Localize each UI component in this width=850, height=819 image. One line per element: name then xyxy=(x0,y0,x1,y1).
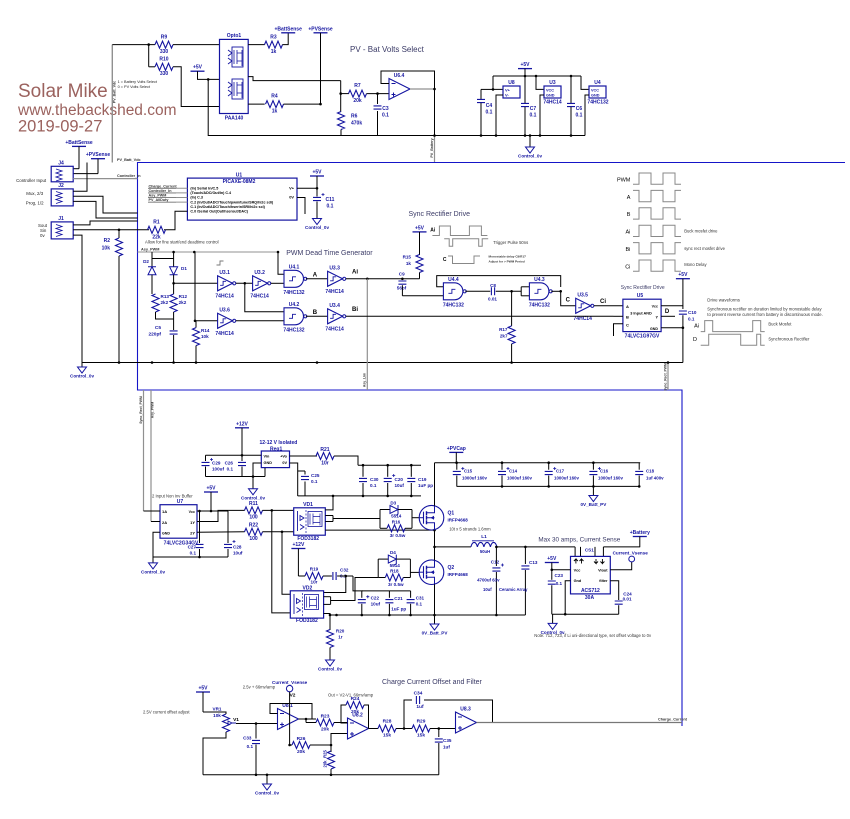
ic U1 PICAXE-08M2 box xyxy=(187,178,297,220)
capacitor C23 xyxy=(551,570,553,580)
svg-text:U8: U8 xyxy=(508,80,515,86)
capacitor C14 xyxy=(501,463,503,470)
op-amp U8.1 xyxy=(278,709,299,730)
transistor Q2 IRFP4668 xyxy=(419,560,444,585)
wire supply bottom rail xyxy=(470,135,585,137)
svg-text:Synchronous rectifier on durat: Synchronous rectifier on duration limite… xyxy=(707,307,822,312)
svg-text:+PVCap: +PVCap xyxy=(447,446,466,452)
svg-text:R12: R12 xyxy=(179,294,188,299)
connector J1 xyxy=(51,222,73,239)
wire R3 to +BattSense xyxy=(282,33,288,45)
resistor R7 xyxy=(349,90,367,97)
svg-text:20k: 20k xyxy=(323,760,328,768)
svg-text:B: B xyxy=(627,212,631,218)
wire U4.1 top input xyxy=(278,252,284,274)
svg-text:+5V: +5V xyxy=(198,686,208,692)
wire U8.1 out to R23 xyxy=(299,718,317,720)
wire U4.3 input tie xyxy=(520,287,522,296)
ic VD1 FOD3182 xyxy=(294,508,326,535)
wire node to R7 xyxy=(341,93,349,95)
wire U5 GND xyxy=(661,327,683,329)
svg-text:10r: 10r xyxy=(321,461,329,467)
resistor R20 xyxy=(329,615,331,630)
svg-text:Sync_Rect_PWM: Sync_Rect_PWM xyxy=(664,363,668,391)
svg-text:Control_0v: Control_0v xyxy=(70,374,94,379)
nand U4.3 xyxy=(529,283,549,300)
wire J1 pin3 Sout xyxy=(73,221,137,225)
wire VD1 pin8 riser xyxy=(325,496,333,510)
diode D3 zener xyxy=(380,509,390,511)
wire R13 R12 join xyxy=(156,312,174,319)
ic U7 box xyxy=(160,505,197,539)
svg-text:Controller_In: Controller_In xyxy=(149,189,173,193)
svg-text:VD1: VD1 xyxy=(303,502,313,508)
svg-text:Sync Rectifier Drive: Sync Rectifier Drive xyxy=(409,211,471,218)
svg-text:+5V: +5V xyxy=(193,65,203,71)
wire U8.1 feedback xyxy=(270,704,312,720)
svg-text:R24: R24 xyxy=(351,696,360,702)
svg-text:C32: C32 xyxy=(340,568,349,573)
wire U8.3 out gray Charge_Current xyxy=(477,722,683,724)
wire U8.2 out xyxy=(369,728,379,730)
wire opto out2 to comparator node xyxy=(248,77,341,81)
wire analog ground rail xyxy=(341,135,583,137)
wire U4.4 out xyxy=(465,290,490,292)
svg-text:Viout: Viout xyxy=(598,568,608,572)
svg-text:C17: C17 xyxy=(556,469,565,474)
wire U4.3 out node xyxy=(551,290,560,292)
svg-text:to prevent reverse current fro: to prevent reverse current from battery … xyxy=(707,312,822,317)
wire V2 riser xyxy=(289,692,291,745)
svg-text:Prog, 1/2: Prog, 1/2 xyxy=(26,201,44,206)
svg-text:PV_Battery: PV_Battery xyxy=(430,138,434,157)
svg-text:IRFP4668: IRFP4668 xyxy=(448,572,469,577)
wire Asy_PWM to U3.6 xyxy=(194,252,196,321)
wire comparator node vertical xyxy=(340,81,342,112)
wire +12V down to R19 rail xyxy=(297,549,299,577)
svg-text:10uf: 10uf xyxy=(483,587,492,592)
wire sense gnd rail xyxy=(552,613,619,615)
wire cross to VD2 pin2 xyxy=(282,532,290,594)
svg-text:Controller_In: Controller_In xyxy=(117,174,141,178)
svg-text:Control_0v: Control_0v xyxy=(255,791,279,796)
svg-text:D4: D4 xyxy=(390,550,396,555)
svg-text:30A: 30A xyxy=(585,595,595,601)
svg-text:10r: 10r xyxy=(311,580,318,585)
svg-text:Mux, 2/3: Mux, 2/3 xyxy=(26,191,43,196)
svg-text:C18: C18 xyxy=(646,469,655,474)
power flag +12V VD1 area xyxy=(291,548,305,550)
svg-text:R22: R22 xyxy=(249,523,258,529)
wire R23 to U8.2 minus xyxy=(334,722,348,724)
power flag +12V main xyxy=(235,427,249,429)
svg-text:Vcc: Vcc xyxy=(652,305,658,309)
resistor R13 xyxy=(152,294,159,312)
wire +BattSense to J4 xyxy=(78,146,80,168)
svg-text:GND: GND xyxy=(546,94,555,98)
wire Q1 source down to node xyxy=(434,530,436,547)
wire L1 right xyxy=(497,546,575,548)
svg-text:0.1: 0.1 xyxy=(556,581,563,586)
frame blue upper sheet xyxy=(138,163,846,727)
wire U5 Vcc xyxy=(661,279,683,306)
ground Control_0v mid xyxy=(81,363,83,368)
wire rail to cap row xyxy=(353,576,363,591)
svg-text:Asy_Lim: Asy_Lim xyxy=(363,373,367,387)
capacitor C12 xyxy=(495,547,497,566)
svg-text:0v: 0v xyxy=(40,233,45,238)
svg-text:(In) Serial In/C.5: (In) Serial In/C.5 xyxy=(190,187,218,191)
svg-text:Control_0v: Control_0v xyxy=(305,225,329,230)
svg-text:0 = PV Volts Select: 0 = PV Volts Select xyxy=(118,85,151,89)
wire +PVSense riser xyxy=(320,33,322,104)
svg-text:15k: 15k xyxy=(417,733,425,739)
wire stub asy to frame xyxy=(366,279,368,390)
svg-text:U3.1: U3.1 xyxy=(219,270,230,276)
wire R21 right xyxy=(334,456,358,465)
wire U7 gnd rail xyxy=(153,532,160,557)
svg-text:Current_Vsense: Current_Vsense xyxy=(272,680,308,685)
svg-text:C25: C25 xyxy=(311,473,320,478)
svg-text:Adjust for > PWM Period: Adjust for > PWM Period xyxy=(489,260,525,264)
capacitor C16 xyxy=(592,463,594,470)
svg-text:10t x 5 strands 1.6mm: 10t x 5 strands 1.6mm xyxy=(449,527,491,532)
svg-text:C.0 /Serial Out(Out/hserout/D: C.0 /Serial Out(Out/hserout/DAC) xyxy=(190,210,248,214)
svg-text:R17: R17 xyxy=(499,327,508,332)
svg-text:1k: 1k xyxy=(271,49,277,55)
svg-text:Ai: Ai xyxy=(352,270,358,276)
wire Gnd pin xyxy=(565,581,570,615)
resistor R10 xyxy=(155,63,173,70)
svg-text:V1: V1 xyxy=(233,717,239,723)
svg-text:GND: GND xyxy=(264,461,273,465)
wire opto pin3 branch down to rail xyxy=(208,79,341,135)
svg-text:R13: R13 xyxy=(161,294,170,299)
svg-text:GND: GND xyxy=(162,532,170,536)
svg-text:V+: V+ xyxy=(289,186,295,191)
power flag +5V U1 xyxy=(310,175,324,177)
svg-text:C: C xyxy=(566,297,571,303)
wire Q2 source down xyxy=(434,584,436,624)
capacitor C29 xyxy=(205,455,207,461)
svg-text:Vcc: Vcc xyxy=(189,510,195,514)
svg-text:Asy_PWM: Asy_PWM xyxy=(149,194,167,198)
resistor R21 xyxy=(316,453,334,460)
wire PVCap drop xyxy=(455,452,457,462)
resistor R25 xyxy=(330,745,332,752)
wire C32 right rail xyxy=(337,575,353,577)
wire +PVSense to J4 xyxy=(97,159,99,174)
svg-text:C28: C28 xyxy=(233,545,242,550)
U1 left net stubs xyxy=(148,187,187,189)
svg-text:+5V: +5V xyxy=(678,272,688,278)
resistor R12 xyxy=(170,294,177,312)
svg-text:0.01: 0.01 xyxy=(623,596,632,601)
capacitor C15 xyxy=(456,463,458,470)
capacitor C35 xyxy=(438,729,440,738)
wire R7 to opamp + xyxy=(367,93,390,95)
svg-text:C: C xyxy=(443,257,447,263)
svg-text:R14: R14 xyxy=(201,328,210,333)
svg-text:Vcc: Vcc xyxy=(574,568,581,572)
wire VD2 pin8 riser xyxy=(324,576,346,593)
ground Control_0v reg xyxy=(252,477,254,489)
svg-text:2k7: 2k7 xyxy=(500,333,508,338)
wire U3.2 out to U4.1 xyxy=(271,282,284,284)
wire reg bottom rail xyxy=(206,476,266,478)
svg-text:Trigger Pulse 50ns: Trigger Pulse 50ns xyxy=(493,240,528,245)
svg-text:(In) C.3: (In) C.3 xyxy=(190,196,203,200)
svg-text:B: B xyxy=(626,315,629,320)
svg-text:PAA140: PAA140 xyxy=(225,116,244,122)
wire bottom rail xyxy=(203,774,439,776)
svg-text:0.1: 0.1 xyxy=(311,479,318,484)
ground 0V_Batt_PV Q2 xyxy=(430,624,439,630)
ic U3 box xyxy=(544,86,561,98)
ground 0V_Batt_PV bank xyxy=(592,486,594,495)
svg-text:0.01: 0.01 xyxy=(488,296,497,301)
wire R10 drop xyxy=(148,45,150,67)
op-amp U8.2 xyxy=(348,718,369,739)
wire Viout to Vsense xyxy=(610,562,631,570)
resistor R15 xyxy=(416,255,423,273)
svg-text:Gnd: Gnd xyxy=(574,579,582,583)
svg-text:3 Input AND: 3 Input AND xyxy=(630,312,652,316)
svg-text:PV_Batt_Vdc: PV_Batt_Vdc xyxy=(117,158,141,162)
svg-text:Asy_PWM: Asy_PWM xyxy=(141,248,159,252)
wire battery drop xyxy=(639,537,641,548)
capacitor C7 xyxy=(524,76,526,103)
svg-text:IRFP4668: IRFP4668 xyxy=(448,518,469,523)
svg-text:0.1: 0.1 xyxy=(327,204,334,210)
svg-text:Q1: Q1 xyxy=(448,511,455,517)
wire +5V to opto pin3 xyxy=(198,71,221,79)
svg-text:R6: R6 xyxy=(351,114,358,120)
ic U4 box xyxy=(589,86,606,98)
svg-text:Max 30 amps, Current Sense: Max 30 amps, Current Sense xyxy=(538,537,620,544)
svg-text:330: 330 xyxy=(160,71,169,77)
svg-text:Ci: Ci xyxy=(625,264,630,270)
svg-text:Control_0v: Control_0v xyxy=(518,154,542,159)
svg-text:Current_Vsense: Current_Vsense xyxy=(613,551,649,556)
inverter U3.3 xyxy=(328,271,343,286)
svg-text:Bi: Bi xyxy=(352,307,358,313)
wire R15 bottom to Ai line xyxy=(419,273,421,279)
svg-text:VR1: VR1 xyxy=(213,707,222,712)
svg-text:+PVSense: +PVSense xyxy=(308,26,333,32)
monostable loop top xyxy=(437,276,561,287)
svg-text:U5: U5 xyxy=(637,293,644,299)
svg-text:1uf 400v: 1uf 400v xyxy=(646,476,664,481)
svg-text:12-12 V Isolated: 12-12 V Isolated xyxy=(260,440,298,446)
svg-text:20k: 20k xyxy=(353,98,362,104)
wire cap bank top rail xyxy=(435,462,641,464)
wire cap bank bottom rail xyxy=(457,485,641,487)
capacitor C22 xyxy=(361,591,363,598)
wire PV_Battery to frame xyxy=(434,136,436,163)
svg-text:R15: R15 xyxy=(403,255,412,260)
svg-text:Control_0v: Control_0v xyxy=(141,569,165,574)
svg-text:Control_0v: Control_0v xyxy=(241,495,265,500)
svg-text:Reg1: Reg1 xyxy=(270,447,282,453)
svg-text:+BattSense: +BattSense xyxy=(275,26,303,32)
power flag +5V U7 xyxy=(204,491,218,493)
svg-text:74HC14: 74HC14 xyxy=(215,331,234,337)
opto internal mosfet bottom xyxy=(228,82,232,96)
wire filter pin to C24 xyxy=(610,581,618,600)
resistor R24 feedback xyxy=(341,705,348,723)
capacitor C13 xyxy=(524,547,526,564)
svg-text:U3.5: U3.5 xyxy=(577,292,588,298)
svg-text:C30: C30 xyxy=(370,477,379,482)
op-amp U6.4 xyxy=(389,79,410,100)
svg-text:C8: C8 xyxy=(490,283,496,288)
wire cap row top xyxy=(362,590,411,592)
svg-text:R26: R26 xyxy=(297,736,306,742)
svg-text:Ai: Ai xyxy=(430,228,436,234)
svg-text:filter: filter xyxy=(599,579,608,583)
wire U5 Y out xyxy=(661,315,672,317)
svg-text:74HC132: 74HC132 xyxy=(529,302,550,308)
wire sense to battery xyxy=(603,546,639,548)
svg-text:C26: C26 xyxy=(225,461,234,466)
ground Control_0v bottom xyxy=(266,775,268,784)
wire out riser to U3.5 xyxy=(561,291,576,306)
svg-text:Opto1: Opto1 xyxy=(227,33,242,39)
diode D4 zener xyxy=(378,558,388,560)
svg-text:C9: C9 xyxy=(399,271,405,276)
wire U8 V- to rail xyxy=(496,95,503,136)
svg-text:Buck mosfet drive: Buck mosfet drive xyxy=(684,229,718,234)
inverter U3.1 xyxy=(218,276,233,291)
wire VD2 out tie xyxy=(330,597,332,605)
svg-text:U6.4: U6.4 xyxy=(394,73,405,79)
power flag +PVSense J4 xyxy=(91,158,105,160)
wire VD1 out tie xyxy=(332,516,334,522)
svg-text:74HC132: 74HC132 xyxy=(283,327,304,333)
svg-text:0V_Batt_PV: 0V_Batt_PV xyxy=(581,502,608,507)
svg-text:Monostable delay C9/R17: Monostable delay C9/R17 xyxy=(489,255,527,259)
power flag +BattSense xyxy=(281,32,295,34)
wire U4 VCC branch xyxy=(581,76,589,89)
wire VD1 pin5 to Q1 source xyxy=(325,529,434,531)
wire +5V to R15 xyxy=(419,232,421,255)
svg-text:Buck Mosfet: Buck Mosfet xyxy=(768,321,792,326)
wire driver 0v rail xyxy=(298,495,421,497)
wire U3.6 out to U4.2 xyxy=(236,320,284,322)
svg-text:15k: 15k xyxy=(383,733,391,739)
svg-text:1Y: 1Y xyxy=(190,520,195,525)
svg-text:+5V: +5V xyxy=(520,62,530,68)
svg-text:Ai: Ai xyxy=(626,230,631,236)
svg-text:+12V: +12V xyxy=(236,421,248,427)
wire R9 right to opto xyxy=(173,44,220,46)
svg-text:+BattSense: +BattSense xyxy=(65,140,93,146)
wire Bi long to U5 xyxy=(346,315,614,317)
ic Reg1 box xyxy=(261,451,289,468)
svg-text:C.1 (In/Out/ADC/Touch/hserin/S: C.1 (In/Out/ADC/Touch/hserin/SRI/hi2c sc… xyxy=(190,205,265,209)
svg-text:1k: 1k xyxy=(406,261,412,266)
svg-text:1uf: 1uf xyxy=(443,745,450,750)
wire driver vcc rail xyxy=(358,464,421,466)
wire U7 1Y to R11 xyxy=(197,510,245,521)
svg-text:0.1: 0.1 xyxy=(370,483,377,488)
svg-text:2.5V current offset adjust: 2.5V current offset adjust xyxy=(143,710,190,715)
wire Q2 source rail xyxy=(330,614,525,616)
svg-text:C14: C14 xyxy=(509,469,518,474)
connector J4 xyxy=(51,166,73,182)
svg-text:Charge Current Offset and Filt: Charge Current Offset and Filter xyxy=(382,679,483,686)
svg-text:330: 330 xyxy=(160,49,169,55)
svg-text:U1: U1 xyxy=(236,173,243,179)
svg-text:0.1: 0.1 xyxy=(486,110,493,116)
wire opamp feedback xyxy=(381,71,435,89)
opto internal mosfet top xyxy=(228,50,232,64)
svg-text:PV_Batt_Vdc: PV_Batt_Vdc xyxy=(113,81,117,103)
svg-text:R3: R3 xyxy=(270,35,277,41)
svg-text:+Vo: +Vo xyxy=(280,455,287,459)
svg-text:U4.1: U4.1 xyxy=(289,264,300,270)
svg-text:A: A xyxy=(627,195,631,201)
resistor R22 xyxy=(245,528,263,535)
ground Control_0v U7 xyxy=(152,557,154,563)
diode D1 xyxy=(173,252,175,267)
svg-text:56pf: 56pf xyxy=(397,285,407,290)
resistor R16 xyxy=(380,527,387,529)
capacitor C34 feedback xyxy=(404,700,412,729)
svg-text:C: C xyxy=(626,323,629,328)
wire stub sync_rect to frame xyxy=(667,363,669,391)
svg-text:2.5v + 66mv/amp: 2.5v + 66mv/amp xyxy=(243,685,276,690)
svg-text:2A: 2A xyxy=(162,520,167,525)
svg-text:2k2: 2k2 xyxy=(161,300,169,305)
svg-text:J4: J4 xyxy=(58,161,64,167)
svg-text:VD2: VD2 xyxy=(303,585,313,591)
svg-text:C34: C34 xyxy=(414,691,423,697)
svg-text:R20: R20 xyxy=(336,628,345,633)
svg-text:U3.4: U3.4 xyxy=(329,303,340,309)
svg-text:R16: R16 xyxy=(392,519,401,524)
svg-text:Bi: Bi xyxy=(626,247,631,253)
svg-text:Control_0v: Control_0v xyxy=(318,667,342,672)
svg-text:U4.4: U4.4 xyxy=(448,277,459,283)
svg-text:10k: 10k xyxy=(102,246,111,252)
svg-text:GND: GND xyxy=(650,327,658,331)
svg-text:20k: 20k xyxy=(297,749,305,755)
svg-text:C.2 (In/Out/ADC/Touch/pwm/tune: C.2 (In/Out/ADC/Touch/pwm/tune/SRQ/hi2c … xyxy=(190,200,273,204)
svg-text:VCC: VCC xyxy=(546,89,554,93)
svg-text:Q2: Q2 xyxy=(448,565,455,571)
resistor R18 xyxy=(378,577,385,579)
port Current_Vsense xyxy=(629,556,635,562)
capacitor C21 xyxy=(388,591,390,598)
svg-text:2Y: 2Y xyxy=(190,531,195,536)
wire D2 D1 top xyxy=(152,258,174,260)
svg-text:C16: C16 xyxy=(600,469,609,474)
capacitor C20 xyxy=(387,465,389,477)
wire cross to VD2 pin3 xyxy=(272,510,291,613)
svg-text:Drive waveforms: Drive waveforms xyxy=(707,298,740,303)
svg-text:Synchronous Rectifier: Synchronous Rectifier xyxy=(768,337,810,342)
svg-text:Mono Delay: Mono Delay xyxy=(684,262,707,267)
svg-text:100: 100 xyxy=(249,536,258,542)
svg-text:R19: R19 xyxy=(310,567,319,572)
svg-text:U7: U7 xyxy=(177,499,184,505)
capacitor C30 xyxy=(362,465,364,477)
ground rail mid xyxy=(82,362,683,364)
wire R9 left xyxy=(112,44,155,46)
port Current_Vsense bottom xyxy=(286,685,292,691)
